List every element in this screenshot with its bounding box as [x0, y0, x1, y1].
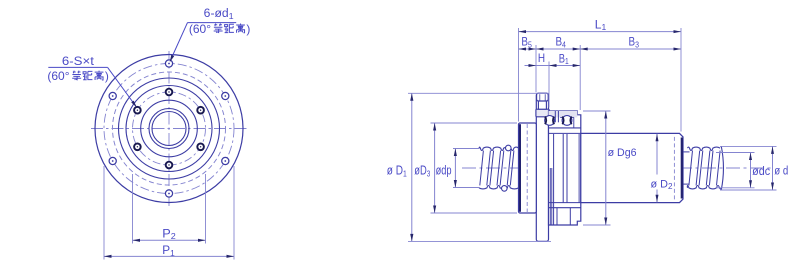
- hidden seal groove right: [673, 137, 675, 200]
- svg-text:øD3: øD3: [414, 164, 430, 179]
- svg-text:ø D2: ø D2: [651, 178, 673, 191]
- dim d: [720, 145, 777, 147]
- pickup ball bottom left: [502, 186, 508, 192]
- hole d1 #1: [165, 60, 172, 67]
- svg-text:ø d: ø d: [774, 166, 788, 178]
- flange outer circle D1: [95, 55, 243, 203]
- dim D3: [431, 122, 518, 124]
- bolt circle P1 (dash-dot): [104, 64, 234, 194]
- svg-text:B4: B4: [555, 35, 566, 50]
- threaded hole Sxt #2: [134, 107, 141, 114]
- cage lines top: [554, 111, 556, 122]
- svg-text:ødp: ødp: [436, 164, 452, 178]
- pickup ball top left: [506, 145, 512, 151]
- svg-text:(60°: (60°: [47, 69, 69, 83]
- screw thread left: [479, 147, 519, 150]
- svg-text:ødc: ødc: [752, 166, 770, 178]
- svg-text:(60°: (60°: [189, 22, 211, 36]
- dim D2: [656, 134, 658, 175]
- dim L1: [518, 28, 520, 122]
- screw root circle: [152, 112, 186, 146]
- flange plate (section bar): [536, 93, 548, 241]
- collar hidden edge: [526, 124, 528, 212]
- svg-text:B1: B1: [559, 51, 569, 66]
- screw break end: [721, 146, 723, 189]
- nut body D2: [581, 133, 683, 202]
- svg-text:ø D1: ø D1: [387, 164, 407, 179]
- hole d1 #5: [222, 157, 229, 164]
- threaded hole Sxt #1: [166, 89, 173, 96]
- dim D1: [408, 92, 549, 94]
- wiper face thick line: [519, 124, 521, 212]
- hole d1 #2: [109, 92, 116, 99]
- svg-text:H: H: [538, 51, 545, 65]
- circle D3: [126, 86, 212, 172]
- right wiper face thick: [681, 138, 683, 199]
- svg-text:L1: L1: [595, 17, 607, 32]
- svg-text:ø Dg6: ø Dg6: [608, 147, 637, 159]
- screw centerline: [462, 167, 774, 169]
- shoulder circle: [141, 100, 198, 157]
- balls with race shoulder crescents: [545, 116, 555, 126]
- hidden circle Dg6 (dashed): [113, 72, 226, 185]
- bolt circle P2 (dash-dot): [133, 92, 206, 165]
- hole d1 #3: [109, 157, 116, 164]
- inner ring plate seams: [553, 134, 555, 225]
- centerlines crosshair: [91, 128, 247, 130]
- dim dc: [716, 152, 755, 154]
- svg-text:): ): [246, 22, 250, 36]
- front view: flange end view: [47, 8, 250, 260]
- svg-text:6-S×t: 6-S×t: [62, 54, 95, 68]
- threaded hole Sxt #5: [197, 144, 204, 151]
- screw root stubs right: [684, 151, 690, 153]
- circle dia 101: [119, 78, 220, 179]
- svg-text:B5: B5: [521, 35, 532, 50]
- bottom ring seams: [556, 208, 558, 225]
- dimension P2: [132, 174, 134, 244]
- svg-text:P1: P1: [162, 243, 175, 258]
- screw od circle: [149, 109, 189, 149]
- svg-text:P2: P2: [162, 226, 176, 241]
- grease nipple: [536, 93, 549, 117]
- svg-text:B3: B3: [629, 35, 640, 50]
- svg-text:): ): [105, 69, 109, 83]
- dim H B1 row: [548, 62, 550, 108]
- threaded hole Sxt #4: [166, 162, 173, 169]
- threaded hole Sxt #6: [197, 107, 204, 114]
- bearing inner race lines: [549, 127, 581, 129]
- hole d1 #4: [165, 190, 172, 197]
- dim dp: [453, 148, 480, 150]
- dimension P1: [103, 166, 105, 260]
- svg-text:6-ød1: 6-ød1: [204, 8, 234, 21]
- dim Dg6: [583, 110, 611, 112]
- hole d1 #6: [222, 92, 229, 99]
- threaded hole Sxt #3: [134, 144, 141, 151]
- dim B5 B4 B3 row: [535, 45, 537, 92]
- wiper collar B5: [519, 123, 537, 213]
- side view: sectioned nut on screw: [387, 17, 789, 241]
- screw thread right: [688, 147, 721, 150]
- bearing outer ring Dg6: [549, 111, 581, 225]
